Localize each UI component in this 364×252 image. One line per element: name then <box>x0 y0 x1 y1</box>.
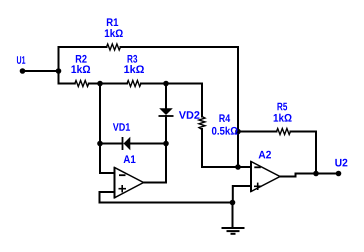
resistor R1 <box>107 44 121 50</box>
wire A2 noninverting <box>233 186 251 203</box>
diode VD1 <box>123 137 131 150</box>
label R4: R4 <box>219 114 230 122</box>
node R5-output junction <box>313 171 319 177</box>
node R2-R3 junction <box>97 81 103 87</box>
label A1: A1 <box>124 155 136 163</box>
resistor R4 <box>199 117 205 130</box>
wire R4 bottom lead <box>202 129 251 167</box>
resistor R3 <box>127 81 141 87</box>
label U2: U2 <box>335 159 347 167</box>
wire node R3 to R4 top <box>166 84 202 117</box>
node ground rail junction <box>230 200 236 206</box>
node U1 terminal <box>20 68 26 74</box>
label R1v: 1kΩ <box>105 29 123 37</box>
wire node R2R3 down <box>99 84 101 144</box>
label R5v: 1kΩ <box>274 114 292 122</box>
wire R5 right lead down to output <box>291 132 317 174</box>
label VD2: VD2 <box>179 111 200 119</box>
label R2: R2 <box>76 55 87 63</box>
wire VD1 right lead <box>130 143 166 145</box>
label U1: U1 <box>17 56 25 64</box>
wire A1 output to diode node <box>144 144 167 183</box>
wire VD2 top lead <box>165 84 167 110</box>
wire A1 inverting input <box>100 144 115 174</box>
wire A2 output to U2 <box>280 174 339 177</box>
op-amp A1 <box>115 167 144 198</box>
diode VD2 <box>159 108 174 116</box>
wire R2 right lead <box>89 83 100 85</box>
op-amp A2 <box>251 161 280 192</box>
node A2 inverting junction <box>235 164 241 170</box>
wire top R1 right lead to corner <box>121 46 239 48</box>
node VD1-VD2 junction <box>163 141 169 147</box>
label R3: R3 <box>128 55 138 63</box>
wire VD1 left lead <box>100 143 123 145</box>
wire VD2 bottom lead <box>165 116 167 144</box>
wire ground drop <box>232 203 234 229</box>
wire input U1 to node <box>23 70 59 72</box>
wire R2 left lead <box>59 83 75 85</box>
resistor R2 <box>75 81 89 87</box>
node R3-R4 junction <box>163 81 169 87</box>
node VD1 left junction <box>97 141 103 147</box>
node input junction <box>56 68 62 74</box>
node R5 tap junction <box>235 129 241 135</box>
label R1: R1 <box>107 18 118 26</box>
ground <box>222 228 245 234</box>
wire feedback vertical x=238 <box>237 47 239 167</box>
wire top R1 left lead <box>59 46 107 48</box>
label R2v: 1kΩ <box>71 65 90 73</box>
wire R3 right lead <box>141 83 166 85</box>
node U2 terminal <box>336 171 342 177</box>
label R3v: 1kΩ <box>124 65 144 73</box>
label R5: R5 <box>277 103 287 111</box>
label VD1: VD1 <box>113 123 130 131</box>
wire A1 noninverting to ground rail <box>100 192 233 203</box>
wire R3 left lead <box>100 83 127 85</box>
resistor R5 <box>277 129 291 135</box>
label A2: A2 <box>259 151 271 159</box>
label R4v: 0.5kΩ <box>212 127 238 135</box>
wire vertical at input node <box>58 47 60 84</box>
wire R5 left lead <box>238 131 277 133</box>
